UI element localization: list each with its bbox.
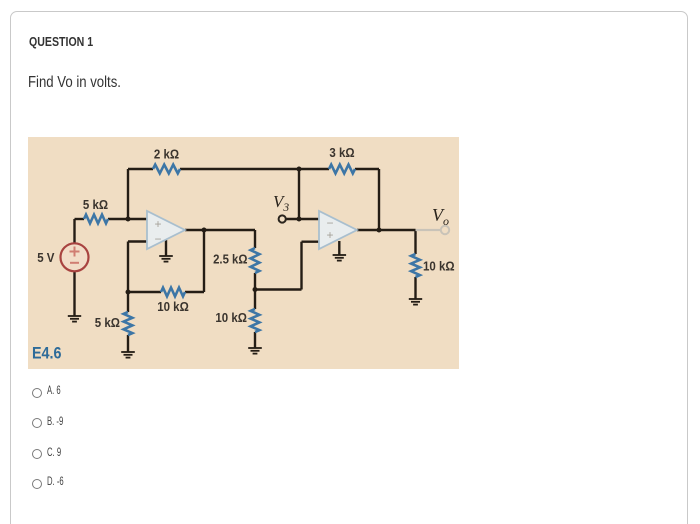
svg-text:5 kΩ: 5 kΩ (83, 197, 108, 212)
svg-text:3 kΩ: 3 kΩ (329, 145, 354, 160)
svg-text:V3: V3 (273, 192, 289, 214)
svg-text:+: + (155, 217, 162, 231)
svg-text:+: + (327, 228, 334, 242)
svg-text:2 kΩ: 2 kΩ (154, 147, 179, 162)
svg-text:Vo: Vo (432, 205, 449, 228)
svg-text:10 kΩ: 10 kΩ (215, 310, 247, 325)
svg-text:2.5 kΩ: 2.5 kΩ (213, 252, 247, 267)
svg-text:E4.6: E4.6 (32, 343, 62, 362)
svg-text:10 kΩ: 10 kΩ (423, 259, 455, 274)
svg-text:10 kΩ: 10 kΩ (157, 299, 189, 314)
svg-text:−: − (155, 232, 162, 246)
svg-text:5 kΩ: 5 kΩ (95, 315, 120, 330)
svg-text:5 V: 5 V (37, 250, 55, 265)
